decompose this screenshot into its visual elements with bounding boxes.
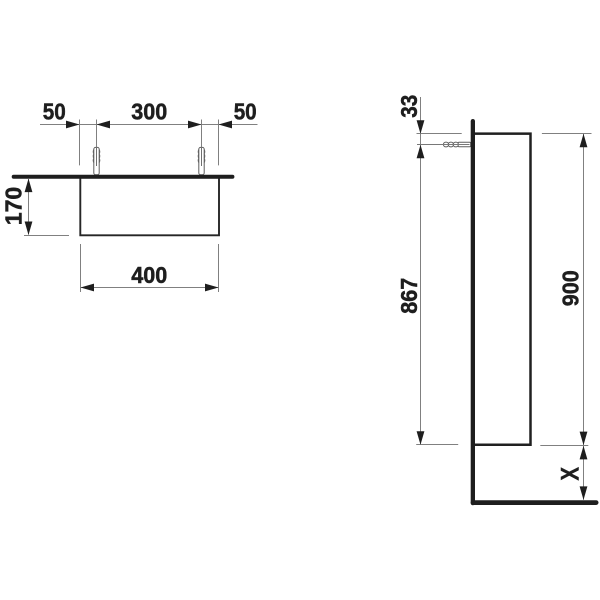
svg-text:33: 33: [396, 95, 422, 118]
svg-text:170: 170: [1, 187, 27, 226]
svg-text:50: 50: [234, 99, 257, 125]
svg-text:900: 900: [558, 270, 584, 306]
svg-text:X: X: [557, 467, 585, 481]
svg-text:300: 300: [131, 99, 167, 125]
svg-text:50: 50: [43, 99, 66, 125]
svg-text:867: 867: [396, 278, 422, 314]
svg-text:400: 400: [131, 262, 167, 288]
